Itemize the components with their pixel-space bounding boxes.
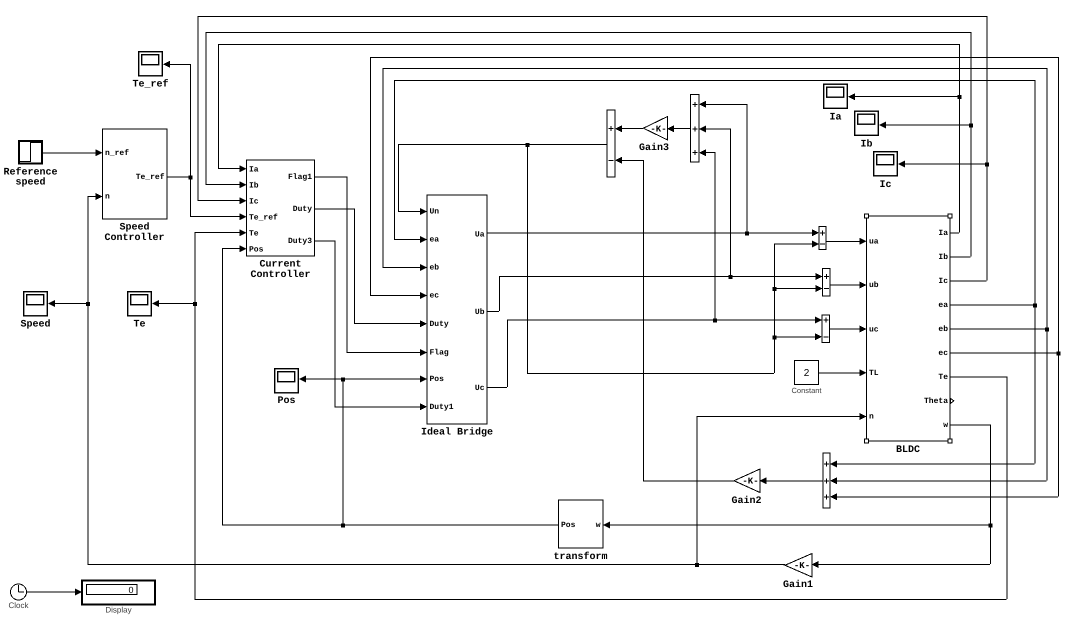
node eb junction xyxy=(1045,327,1049,331)
node Pos branch junction xyxy=(341,524,345,528)
subsystem Current Controller xyxy=(247,160,315,281)
wire Ua branch to sum2 input 1 xyxy=(699,101,747,233)
wire Constant to BLDC TL xyxy=(819,369,867,376)
wire BLDC ec output loop xyxy=(370,57,1059,496)
wire sum2 output to Gain3 xyxy=(667,125,691,132)
node Pos scope junction xyxy=(341,377,345,381)
svg-text:Ua: Ua xyxy=(475,231,485,240)
svg-text:2: 2 xyxy=(804,368,810,379)
svg-text:Un: Un xyxy=(430,208,440,217)
node n to BLDC junction xyxy=(695,563,699,567)
scope Ic xyxy=(874,152,898,191)
wire BLDC Ib to Current Controller Ib loop xyxy=(206,32,972,257)
wire sum uc output to BLDC uc xyxy=(830,326,867,333)
svg-text:transform: transform xyxy=(553,551,607,563)
sum block ub xyxy=(823,269,831,297)
svg-text:-K-: -K- xyxy=(650,124,666,134)
node Ic scope junction xyxy=(985,163,989,167)
svg-text:Gain2: Gain2 xyxy=(731,495,761,507)
svg-text:speed: speed xyxy=(15,177,45,189)
wire BLDC Ic to Current Controller Ic loop xyxy=(198,16,988,281)
wire Un to sum ub minus xyxy=(774,285,823,292)
wire sum ub output to BLDC ub xyxy=(830,281,867,288)
svg-text:Pos: Pos xyxy=(430,375,445,384)
svg-text:Constant: Constant xyxy=(791,386,822,395)
wire BLDC eb output loop xyxy=(383,68,1048,480)
svg-text:Gain1: Gain1 xyxy=(783,579,813,591)
svg-text:ea: ea xyxy=(938,301,948,310)
svg-text:Controller: Controller xyxy=(250,269,310,281)
svg-text:BLDC: BLDC xyxy=(896,445,920,456)
svg-text:Speed: Speed xyxy=(119,222,149,234)
constant Constant value 2 xyxy=(791,361,822,395)
svg-text:Flag1: Flag1 xyxy=(288,173,312,182)
subsystem Ideal Bridge xyxy=(421,195,493,439)
wire BLDC Te output feedback xyxy=(195,229,1008,599)
selection handles BLDC xyxy=(865,214,953,443)
svg-text:Duty: Duty xyxy=(430,320,449,329)
svg-text:eb: eb xyxy=(430,264,440,273)
node ea junction xyxy=(1033,303,1037,307)
wire Uc branch to sum2 input 3 xyxy=(699,149,715,319)
svg-text:-K-: -K- xyxy=(742,477,758,487)
svg-text:-K-: -K- xyxy=(794,561,810,571)
wire Speed Controller Te_ref output xyxy=(167,176,190,178)
node Ia scope junction xyxy=(958,95,962,99)
wire Current Controller Duty3 to Ideal Bridge Duty1 xyxy=(315,240,428,410)
wire sum Gain2 output to Gain2 xyxy=(760,477,824,484)
port Theta unconnected mark xyxy=(951,398,954,403)
svg-text:n: n xyxy=(869,413,874,422)
step source Reference speed xyxy=(3,141,57,189)
wire BLDC w output xyxy=(812,424,991,568)
subsystem transform xyxy=(553,500,607,563)
clock Clock xyxy=(8,584,29,610)
scope Pos xyxy=(275,369,299,407)
wire Te_ref branch to Te_ref scope xyxy=(163,61,191,177)
svg-text:Ub: Ub xyxy=(475,308,485,317)
svg-text:Te_ref: Te_ref xyxy=(249,213,278,222)
svg-text:w: w xyxy=(596,521,601,530)
scope Te_ref xyxy=(132,52,168,91)
wire w branch to transform w xyxy=(603,522,990,529)
subsystem BLDC xyxy=(867,216,951,456)
sum block before Gain2 xyxy=(823,453,830,508)
scope Ib xyxy=(855,111,879,150)
wire Gain2 output to sum1 minus xyxy=(615,157,734,481)
subsystem Speed Controller xyxy=(103,129,168,244)
svg-text:Flag: Flag xyxy=(430,349,449,358)
wire Reference speed to Speed Controller n_ref xyxy=(43,149,103,156)
gain Gain2 xyxy=(731,469,761,507)
svg-text:Ia: Ia xyxy=(938,229,948,238)
node Te to Te scope junction xyxy=(193,302,197,306)
svg-text:Speed: Speed xyxy=(20,319,50,331)
wire Un to sum uc minus xyxy=(774,333,822,340)
node Un branch junction xyxy=(526,143,530,147)
sum block uc xyxy=(822,315,830,343)
scope Speed xyxy=(20,292,50,331)
node Ib scope junction xyxy=(969,124,973,128)
svg-text:Ic: Ic xyxy=(879,180,891,191)
svg-text:Te: Te xyxy=(249,229,259,238)
svg-text:Ia: Ia xyxy=(249,165,259,174)
wire sum1 Un output to Ideal Bridge Un xyxy=(398,144,607,215)
sum block sum2 xyxy=(691,95,700,163)
wire branch to BLDC n input xyxy=(697,413,867,564)
wire Gain1 output n feedback xyxy=(88,193,786,565)
wire ec to sum Gain2 input 3 xyxy=(830,493,1058,500)
svg-text:Clock: Clock xyxy=(8,601,29,610)
sum block sum1 Un xyxy=(607,110,615,177)
svg-text:Controller: Controller xyxy=(104,232,164,244)
svg-text:Ib: Ib xyxy=(938,253,948,262)
node n to Speed scope junction xyxy=(86,302,90,306)
node Un minus junction ub xyxy=(773,287,777,291)
svg-text:Duty3: Duty3 xyxy=(288,237,312,246)
svg-text:n_ref: n_ref xyxy=(105,149,129,158)
svg-text:ea: ea xyxy=(430,236,440,245)
wire Te_ref branch to Current Controller Te_ref xyxy=(190,176,247,220)
wire Ub branch to sum2 input 2 xyxy=(699,125,731,276)
svg-text:Ideal Bridge: Ideal Bridge xyxy=(421,427,493,439)
svg-text:Ic: Ic xyxy=(938,277,948,286)
svg-text:w: w xyxy=(943,421,948,430)
node ec junction xyxy=(1057,351,1061,355)
svg-text:TL: TL xyxy=(869,369,879,378)
svg-text:Gain3: Gain3 xyxy=(639,142,669,154)
display Display xyxy=(82,581,155,615)
wire Current Controller Duty to Ideal Bridge Duty xyxy=(315,208,428,327)
svg-text:ua: ua xyxy=(869,238,879,247)
wire branch to Ia scope xyxy=(848,93,959,100)
svg-text:Pos: Pos xyxy=(561,521,576,530)
wire ea to sum Gain2 input 1 xyxy=(830,461,1035,468)
wire Current Controller Flag1 to Ideal Bridge Flag xyxy=(315,176,428,356)
svg-text:Pos: Pos xyxy=(277,396,295,407)
svg-text:Duty1: Duty1 xyxy=(430,403,454,412)
svg-text:Te: Te xyxy=(938,373,948,382)
svg-text:Ib: Ib xyxy=(860,139,872,151)
node Uc junction xyxy=(713,319,717,323)
scope Te xyxy=(128,292,152,331)
wire BLDC Ia to Current Controller Ia loop xyxy=(218,44,960,233)
node Ub junction xyxy=(729,275,733,279)
wire branch to Ic scope xyxy=(898,161,987,168)
svg-text:Theta: Theta xyxy=(924,397,948,406)
svg-text:Display: Display xyxy=(105,606,131,615)
wire Pos branch vertical xyxy=(342,378,344,524)
wire Gain3 output to sum1 plus xyxy=(615,125,643,132)
svg-text:Te: Te xyxy=(133,320,145,331)
gain Gain3 xyxy=(639,117,669,155)
wire sum ua output to BLDC ua xyxy=(826,238,867,245)
wire branch to Pos scope xyxy=(299,375,343,382)
svg-text:Duty: Duty xyxy=(293,205,312,214)
wire branch to Speed scope xyxy=(48,300,88,307)
node Un minus junction uc xyxy=(773,335,777,339)
wire Clock to Display xyxy=(27,589,82,596)
svg-text:ub: ub xyxy=(869,281,879,290)
gain Gain1 xyxy=(783,554,813,592)
svg-text:Te_ref: Te_ref xyxy=(132,79,168,91)
svg-text:eb: eb xyxy=(938,325,948,334)
svg-text:Pos: Pos xyxy=(249,245,264,254)
node Ua junction xyxy=(745,231,749,235)
wire Ideal Bridge Ua output xyxy=(487,229,819,236)
svg-text:n: n xyxy=(105,193,110,202)
node w junction xyxy=(989,524,993,528)
wire transform Pos output xyxy=(222,245,559,525)
sum block ua xyxy=(819,227,826,250)
svg-text:ec: ec xyxy=(938,349,948,358)
svg-text:ec: ec xyxy=(430,292,440,301)
svg-text:Current: Current xyxy=(259,260,301,271)
svg-text:0: 0 xyxy=(128,585,133,595)
wire BLDC ea output loop xyxy=(394,80,1035,464)
wire branch to Ib scope xyxy=(879,122,971,129)
svg-text:uc: uc xyxy=(869,325,879,334)
wire eb to sum Gain2 input 2 xyxy=(830,477,1047,484)
node Te_ref junction xyxy=(189,175,193,179)
wire Ideal Bridge Uc output xyxy=(487,317,822,388)
wire branch to Te scope xyxy=(152,300,195,307)
wire branch to Ideal Bridge Pos xyxy=(343,375,428,382)
svg-text:Uc: Uc xyxy=(475,384,485,393)
svg-text:Ib: Ib xyxy=(249,181,259,190)
svg-text:Te_ref: Te_ref xyxy=(136,173,165,182)
scope Ia xyxy=(824,84,848,123)
svg-text:Ic: Ic xyxy=(249,197,259,206)
wire Ideal Bridge Ub output xyxy=(487,273,823,312)
svg-text:Ia: Ia xyxy=(829,113,841,124)
wire Un branch to minus inputs xyxy=(527,144,819,374)
